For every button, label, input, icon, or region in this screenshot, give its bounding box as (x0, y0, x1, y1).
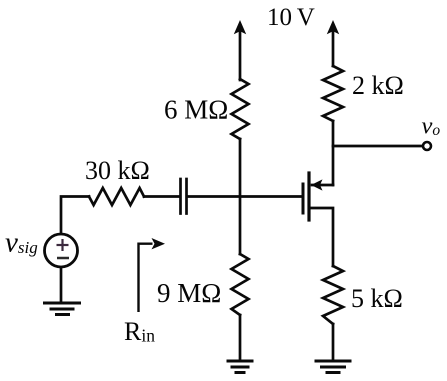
arrow: Rin looking-in arrow (139, 244, 153, 312)
wire: R4 bottom to right ground (332, 324, 335, 361)
source V1 vsig circle (45, 234, 78, 267)
wire: vsig bottom lead to left ground (60, 268, 63, 302)
transistor Q1 gate bar (302, 184, 305, 213)
transistor Q1 arrow on drain lead (311, 179, 323, 190)
svg-text:30 kΩ: 30 kΩ (85, 156, 150, 185)
arrowhead: left 10V supply arrow (234, 20, 246, 34)
wire: R5 to capacitor C1 (144, 195, 179, 198)
plus sign of V1 (57, 239, 69, 251)
svg-text:10 V: 10 V (267, 4, 315, 31)
wire: source lead of Q1 down to R4 (310, 208, 333, 266)
minus sign of V1 (57, 257, 69, 260)
svg-text:5 kΩ: 5 kΩ (351, 284, 403, 313)
wire: C1 to gate of Q1 (188, 195, 302, 198)
wire: bias column from R1 to R2, crosses gate wire at node G (239, 139, 242, 254)
wire: node vo horizontal to output terminal (333, 145, 422, 148)
terminal vo open circle (423, 142, 431, 150)
arrowhead: right 10V supply arrow (327, 20, 339, 34)
ground (right, under R4) (315, 361, 352, 373)
ground (left, under vsig) (43, 303, 81, 315)
ground (middle, under R2) (227, 361, 254, 373)
transistor Q1 channel bar (307, 173, 310, 220)
resistor R1 6 MΩ (232, 79, 249, 139)
svg-text:6 MΩ: 6 MΩ (164, 95, 228, 125)
svg-text:2 kΩ: 2 kΩ (352, 71, 404, 100)
wire: vsig top lead up and right to R5 (30 kΩ) (61, 197, 89, 234)
resistor R4 5 kΩ (323, 266, 343, 324)
wire: R2 bottom to middle ground (239, 315, 242, 361)
resistor R2 9 MΩ (232, 254, 249, 315)
wire: drain lead horizontal into Q1 (312, 184, 333, 187)
svg-text:9 MΩ: 9 MΩ (157, 278, 221, 308)
resistor R3 2 kΩ (323, 66, 343, 121)
wire: drain column from R3 through node vo down to drain lead (332, 121, 335, 185)
wire: 10V supply lead down to R3 (2 kΩ) (332, 32, 335, 66)
capacitor C1 plates (179, 179, 182, 214)
arrowhead: Rin arrow (152, 238, 166, 249)
wire: 10V supply lead down to R1 (6 MΩ) (239, 32, 242, 80)
resistor R5 30 kΩ (89, 188, 144, 205)
